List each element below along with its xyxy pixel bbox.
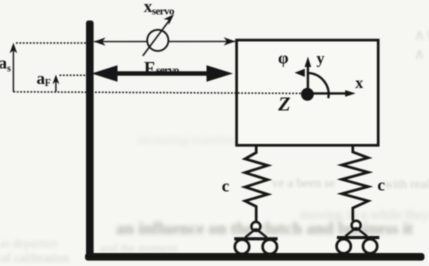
right spring c xyxy=(342,147,368,221)
dotted reference line at Z height xyxy=(13,92,301,94)
svg-text:c: c xyxy=(222,177,230,196)
ground xyxy=(85,253,425,261)
svg-text:c: c xyxy=(377,176,385,195)
svg-text:s: s xyxy=(7,64,11,75)
svg-text:servo: servo xyxy=(156,65,180,77)
svg-text:φ: φ xyxy=(278,49,289,68)
svg-text:servo: servo xyxy=(152,6,175,18)
label a_F xyxy=(37,69,51,89)
wall xyxy=(86,21,94,257)
svg-text:F: F xyxy=(45,78,51,89)
label F_servo xyxy=(144,58,180,78)
phi rotation arc arrow xyxy=(295,69,329,98)
label x_servo xyxy=(144,0,175,18)
label c (right spring) xyxy=(377,176,385,195)
x axis arrow xyxy=(307,90,356,97)
svg-text:Z: Z xyxy=(277,94,290,116)
a_s measurement arrow xyxy=(10,43,18,92)
left wheel truck xyxy=(234,222,277,254)
x_servo dimension line (wall to box) xyxy=(94,37,236,45)
displacement sensor (circle with diagonal arrow) xyxy=(143,14,174,56)
svg-text:x: x xyxy=(355,75,363,92)
svg-text:F: F xyxy=(144,58,155,78)
label a_s xyxy=(0,53,11,74)
F_servo actuator double arrow xyxy=(92,65,234,81)
left spring c xyxy=(245,147,268,222)
dotted line at a_s level xyxy=(16,42,86,44)
a_F measurement arrow xyxy=(52,75,59,92)
svg-text:y: y xyxy=(317,50,325,67)
right wheel truck xyxy=(337,221,380,254)
label x xyxy=(355,75,363,92)
label phi xyxy=(278,49,289,68)
scan bleed-through background text (decorative, unlabeled) xyxy=(138,132,268,148)
center of mass dot Z xyxy=(301,88,314,101)
dotted line at a_F level xyxy=(60,74,87,76)
mass box M xyxy=(237,40,379,145)
y axis arrow xyxy=(305,57,312,94)
label c (left spring) xyxy=(222,177,230,196)
label y xyxy=(317,50,325,67)
label Z xyxy=(277,94,290,116)
